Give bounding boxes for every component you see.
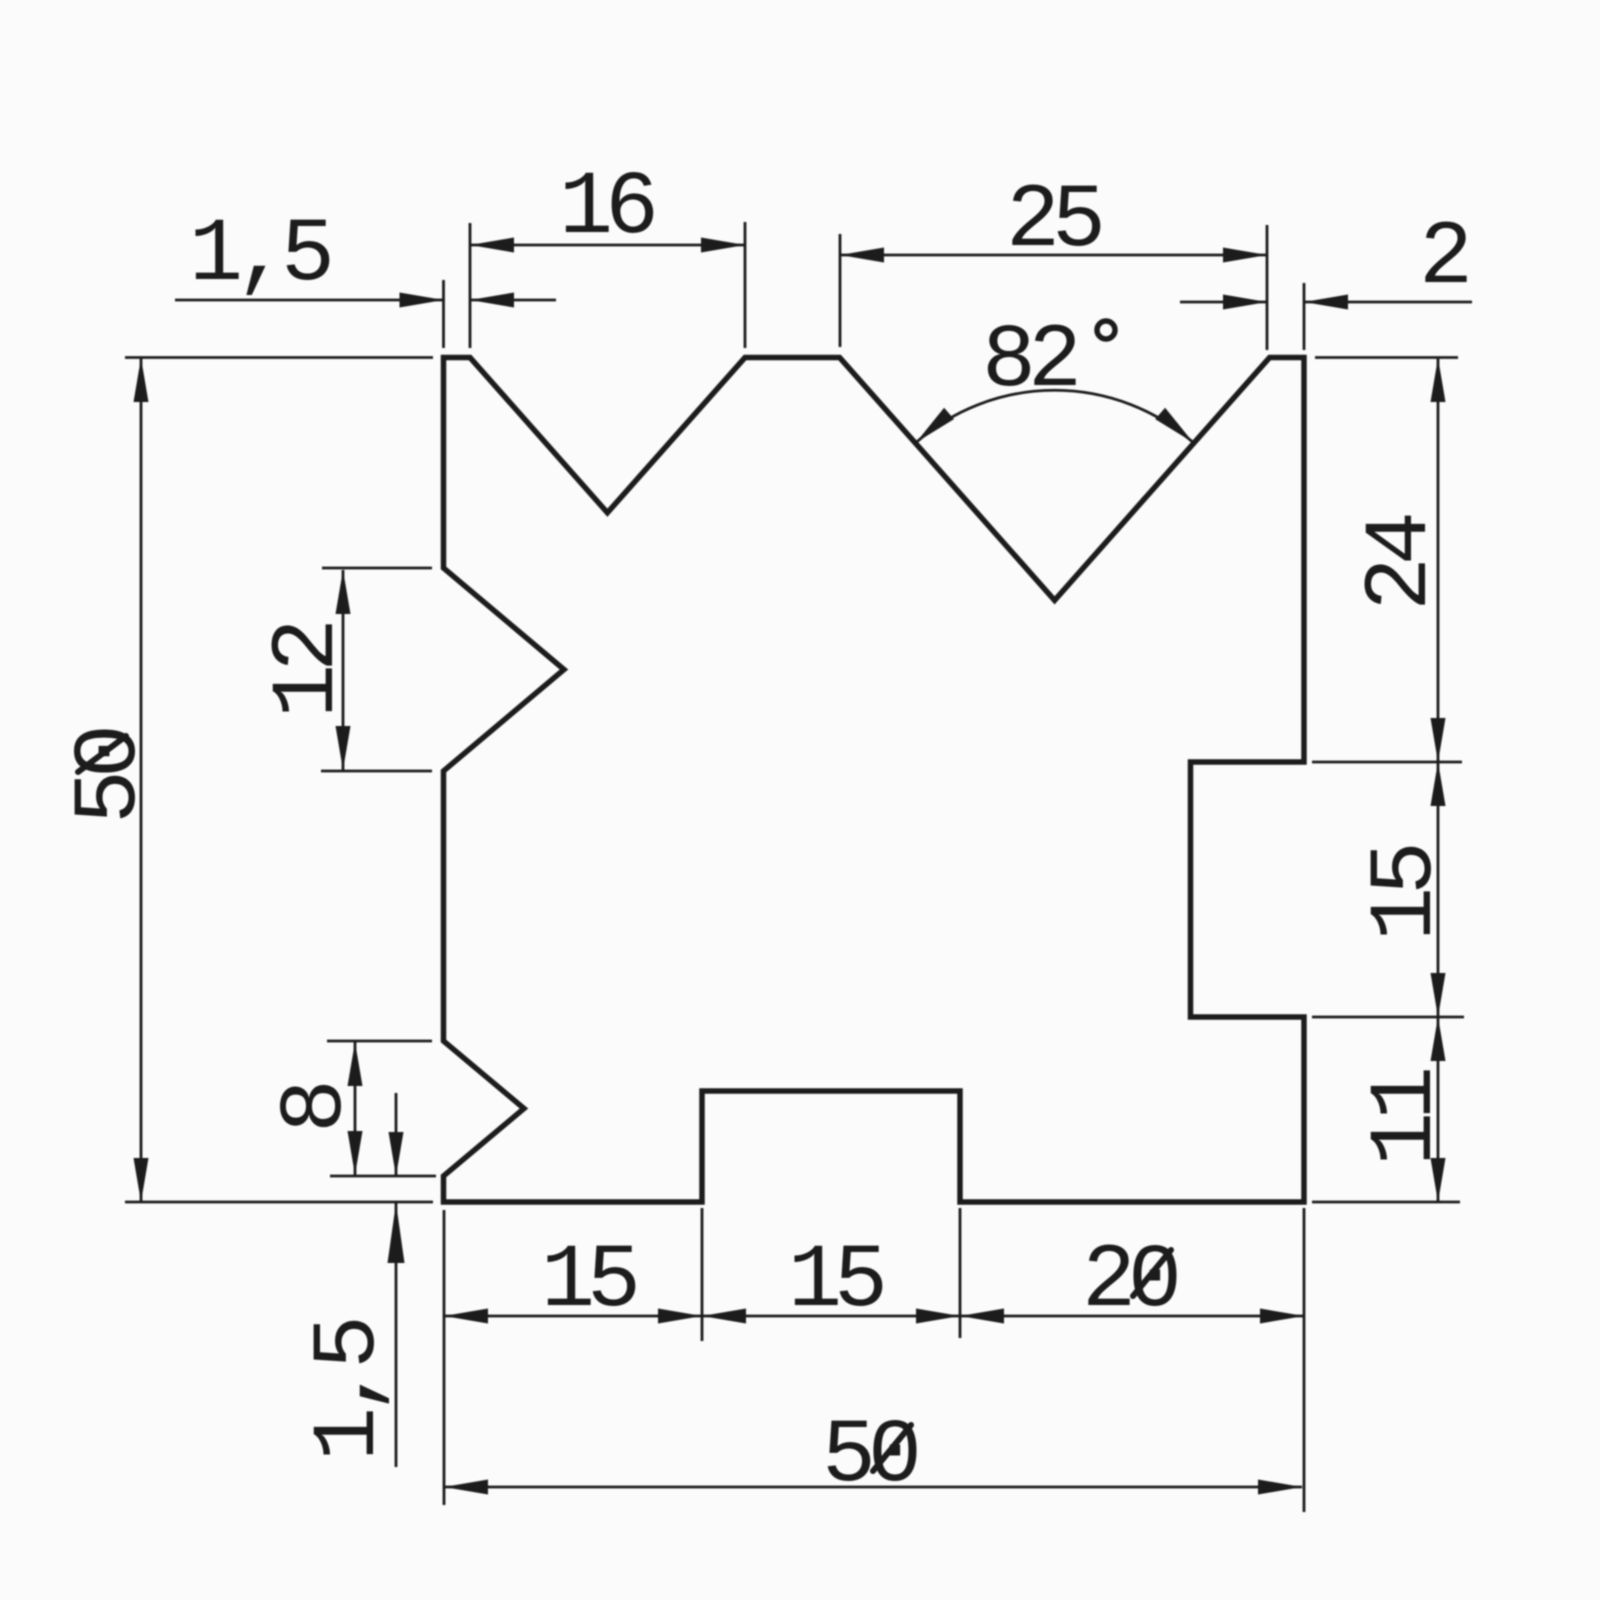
arrowhead chain at y=top pointing up — [1431, 358, 1446, 402]
arrowhead 25 right — [1223, 248, 1267, 263]
svg-text:1,5: 1,5 — [189, 205, 330, 307]
svg-text:12: 12 — [258, 624, 360, 718]
arrowhead 1,5 bottom pointing down — [389, 1132, 404, 1176]
arrowhead chain at x=15 pointing right — [658, 1309, 702, 1324]
svg-text:15: 15 — [788, 1231, 883, 1333]
dim line bottom chain — [444, 1315, 1304, 1318]
arrowhead chain at x=0 pointing left — [444, 1309, 488, 1324]
arrowhead 50-left bottom — [134, 1158, 149, 1202]
arrowhead 1,5 top-left pointing left — [470, 293, 514, 308]
svg-text:15: 15 — [541, 1231, 636, 1333]
extension line x=50 bottom — [1303, 1208, 1306, 1512]
arrowhead 50-left top — [134, 358, 149, 402]
extension line right-notch top — [1312, 761, 1462, 764]
dim line 1,5 top-left right tail — [470, 299, 556, 302]
dim line 8 — [354, 1042, 357, 1175]
degree symbol circle — [1097, 321, 1115, 339]
dim line right chain — [1437, 358, 1440, 1202]
arc arrowhead right — [1155, 408, 1193, 443]
arrowhead 8 bottom — [348, 1131, 363, 1175]
arrowhead chain at notch-bottom pointing down — [1431, 973, 1446, 1017]
extension line 12-notch bottom — [321, 770, 432, 773]
arrowhead 12 top — [336, 570, 351, 614]
arrowhead 12 bottom — [336, 726, 351, 770]
arrowhead 1,5 top-left pointing right — [400, 293, 444, 308]
extension line y=bottom for left 50 dim — [125, 1201, 433, 1204]
dim line 1,5 top-left left tail — [175, 299, 443, 302]
extension line x=17.5 top — [744, 222, 747, 348]
angle arc 82 degrees — [916, 390, 1193, 442]
arrowhead 16 left — [470, 238, 514, 253]
arrowhead chain at notch-top pointing down — [1431, 718, 1446, 762]
dim line 1,5 bottom upper tail — [395, 1093, 398, 1176]
svg-text:24: 24 — [1351, 515, 1453, 611]
extension line y=bottom right side — [1312, 1201, 1460, 1204]
arrowhead 2 pointing left — [1304, 295, 1348, 310]
dim line 25 — [840, 254, 1267, 257]
dim line 50 left — [140, 358, 143, 1202]
svg-text:25: 25 — [1006, 171, 1101, 273]
svg-text:2: 2 — [1419, 208, 1467, 310]
extension line x=23 top — [839, 234, 842, 347]
slash of zero in 20 — [1133, 1250, 1171, 1296]
arc arrowhead left — [916, 408, 954, 443]
arrowhead chain at notch-bottom pointing up — [1431, 1017, 1446, 1061]
svg-text:20: 20 — [1082, 1231, 1177, 1333]
extension line y=top right side — [1315, 356, 1458, 359]
extension line x=50 top-right — [1303, 283, 1306, 350]
extension line right-notch bottom — [1312, 1016, 1464, 1019]
arrowhead 2 pointing right — [1223, 295, 1267, 310]
svg-text:1,5: 1,5 — [299, 1320, 401, 1461]
svg-text:16: 16 — [559, 158, 654, 260]
extension line x=30 bottom — [959, 1208, 962, 1338]
arrowhead 1,5 bottom pointing up (long) — [388, 1203, 405, 1263]
svg-text:11: 11 — [1356, 1070, 1458, 1166]
extension line x=0 bottom — [443, 1210, 446, 1505]
svg-text:15: 15 — [1356, 846, 1458, 941]
extension line y=top for left 50 dim — [125, 356, 433, 359]
svg-text:82: 82 — [982, 311, 1076, 413]
dim line 16 — [470, 244, 745, 247]
extension line x=0 top-left — [442, 280, 445, 348]
arrowhead chain at x=30 pointing right — [916, 1309, 960, 1324]
svg-text:50: 50 — [822, 1406, 917, 1508]
extension line x=1.5 top — [469, 223, 472, 348]
extension line x=15 bottom — [701, 1208, 704, 1341]
svg-text:8: 8 — [266, 1084, 368, 1133]
arrowhead chain at y=bottom pointing down — [1431, 1158, 1446, 1202]
extension line 8-notch top — [327, 1040, 432, 1043]
extension line 12-notch top — [322, 567, 432, 570]
profile outline of 50x50 die cross-section — [444, 358, 1305, 1203]
dim line 50 bottom — [444, 1486, 1302, 1489]
arrowhead 16 right — [701, 238, 745, 253]
arrowhead 25 left — [840, 248, 884, 263]
arrowhead chain at x=15 pointing left — [702, 1309, 746, 1324]
dim line 1,5 bottom lower tail — [395, 1203, 398, 1467]
arrowhead 50-bottom left — [444, 1480, 488, 1495]
dim line 2 left tail — [1180, 301, 1267, 304]
dim line 2 right tail — [1304, 301, 1472, 304]
slash of zero in bottom 50 — [873, 1425, 911, 1471]
arrowhead 8 top — [348, 1042, 363, 1086]
arrowhead chain at x=30 pointing left — [960, 1309, 1004, 1324]
arrowhead 50-bottom right — [1258, 1480, 1302, 1495]
extension line x=48 top-right — [1266, 225, 1269, 350]
arrowhead chain at notch-top pointing up — [1431, 762, 1446, 806]
slash of zero in left 50 — [78, 736, 126, 772]
extension line 8-notch bottom — [330, 1175, 436, 1178]
arrowhead chain at x=50 pointing right — [1260, 1309, 1304, 1324]
dim line 12 — [342, 570, 345, 770]
svg-text:50: 50 — [60, 729, 162, 824]
